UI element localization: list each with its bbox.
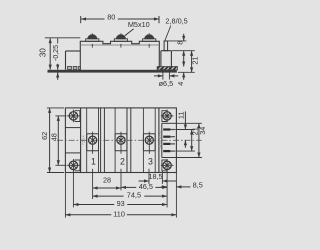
mounting hole at 167.1,115.9 [163,112,171,120]
svg-text:M5x10: M5x10 [128,20,150,29]
svg-text:18,5: 18,5 [148,172,162,181]
terminal screw 2 (side view) [114,39,127,42]
svg-text:62: 62 [40,132,49,140]
dimension 62 [49,108,51,173]
body divider line x=104.4 [103,108,105,173]
dimension 18,5 [139,180,150,182]
mounting hole at 167.1,165.3 [163,161,171,169]
dimension 48 [57,116,59,165]
dimension 110 [65,214,111,216]
bottom rib 1 under left end-cap [68,66,72,69]
baseplate (dark band) [48,70,177,73]
svg-text:7,5 x 4: 7,5 x 4 [82,135,86,145]
module body outline (side view) [80,41,159,70]
left end-cap shoulder (side view) [66,50,81,52]
terminal pad 3 (plan) [143,134,155,151]
terminal pad 2 (plan) [115,134,127,151]
mounting hole edge lines (dia 6,5) [162,67,164,80]
dimension 21 (post height) [191,51,193,73]
dimension 34 [198,123,200,157]
terminal screw 1 (side view) [86,39,99,42]
mounting hole at 73.4,115.9 [69,112,77,120]
dimension 8,5 [161,186,167,188]
svg-text:2,8/0,5: 2,8/0,5 [165,17,187,26]
dimension 11 [184,111,186,129]
svg-text:34: 34 [198,127,207,135]
dimension 80 (top width) [80,16,82,23]
hatched mounting flange section [157,67,177,70]
svg-text:28: 28 [103,176,111,185]
mounting hole pad bottom-left [75,160,80,171]
mounting hole pad top-left [75,111,80,122]
mounting hole pad top-right [162,111,168,122]
dimension 28 [93,187,121,189]
bottom rib 3 under left end-cap [79,66,81,69]
control blade terminal 1 [163,128,170,130]
end cap inner edges [80,108,82,173]
bottom rib 2 under left end-cap [73,66,77,69]
svg-text:74,5: 74,5 [127,191,141,200]
svg-text:-0,25: -0,25 [53,45,60,61]
terminal 2 pad edge lines [114,108,116,173]
svg-text:ø6,5: ø6,5 [159,79,174,88]
mounting hole at 73.4,165.3 [69,161,77,169]
plan view outer rectangle [65,108,176,173]
terminal 1 pad edge lines [86,108,88,173]
svg-text:30: 30 [39,48,48,57]
dimension 46,5 [121,186,136,188]
svg-text:3: 3 [148,157,153,167]
terminal pad 1 (plan) [87,134,99,151]
control blade terminal 4 [163,150,170,152]
mounting hole pad bottom-right [162,160,168,171]
body top far-edge line [81,44,159,46]
fast-on blade 2,8x0,5 [164,41,168,51]
connector block outline [161,123,163,157]
svg-text:1: 1 [91,156,96,166]
left extension lines [47,107,64,109]
terminal 3 pad edge lines [142,108,144,173]
dimension dia 6,5 [154,75,163,77]
body divider line x=130.8 [130,108,132,173]
dimension 74,5 [93,195,124,197]
svg-text:93: 93 [117,199,125,208]
svg-text:11: 11 [176,112,185,120]
svg-text:48: 48 [50,133,59,141]
terminal screw 3 (side view) [143,39,156,42]
svg-text:4: 4 [176,82,185,86]
svg-text:G2 K2 G1 K1: G2 K2 G1 K1 [158,130,162,148]
control blade terminal 2 [163,136,170,138]
dimensions 8 and 4 (right stack) [168,40,186,42]
control blade terminal 3 [163,143,170,145]
dimension 21 (blades) [191,130,193,152]
left cap horizontals [65,127,80,129]
dimension 30 (height) [45,37,81,39]
svg-text:80: 80 [107,13,115,22]
bottom extension lines [92,169,94,199]
dimension 93 [73,204,114,206]
auxiliary terminal post (section) [160,51,162,67]
centerline [57,139,202,141]
svg-text:8,5: 8,5 [193,181,203,190]
svg-text:110: 110 [113,209,125,218]
body divider line x=127.0 [126,108,128,173]
body divider line x=100.6 [100,108,102,173]
right extension lines [176,122,202,124]
svg-text:46,5: 46,5 [139,182,153,191]
svg-text:8: 8 [175,41,184,45]
svg-text:21: 21 [191,57,200,65]
svg-text:2: 2 [120,157,125,167]
